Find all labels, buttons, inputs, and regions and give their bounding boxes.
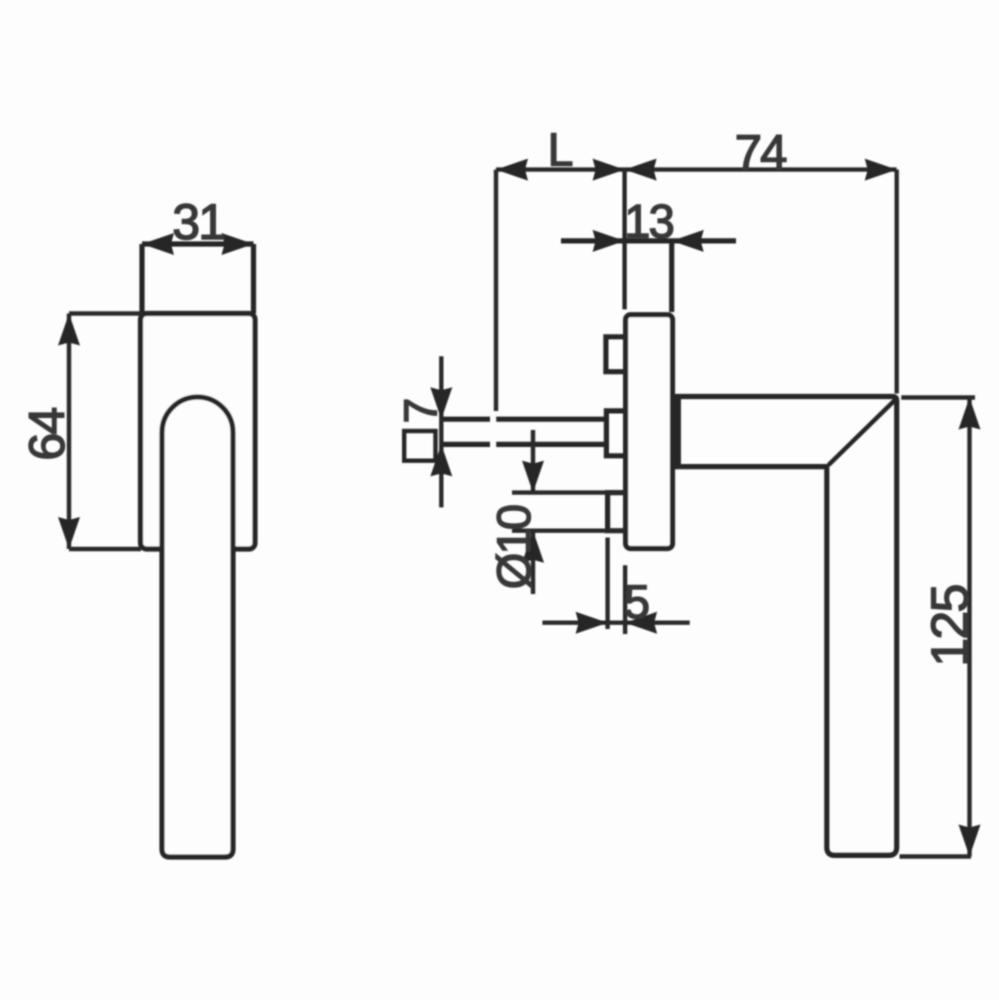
bottom screw boss side view: [608, 493, 626, 531]
svg-text:64: 64: [19, 408, 75, 461]
arrow 125 bottom: [959, 825, 981, 857]
arrow L right (pointing right, tip at 624.6): [593, 159, 625, 181]
arrow 74 left (pointing left, tip at 624.6): [625, 159, 657, 181]
extension line at x=896.7 (74 right): [895, 170, 899, 394]
spindle (square shaft), drawn with break gap: [441, 419, 606, 444]
dimension line 64: [67, 314, 71, 550]
svg-text:L: L: [548, 124, 573, 176]
arrow 31 left: [142, 233, 174, 255]
svg-text:125: 125: [922, 585, 980, 666]
extension lines for 125: [900, 398, 976, 857]
svg-text:74: 74: [735, 126, 786, 180]
dimension line 31 (doubles as tab top edge): [142, 241, 254, 246]
extension line at x=624.6 (tab front face, L/74 boundary): [622, 168, 626, 310]
arrow 74 right: [865, 159, 897, 181]
arrow 5 left (outside, pointing right, tip 607.6): [576, 612, 608, 634]
handle grip front view (covers rosette bottom edge): [162, 397, 233, 857]
top tab front view: [142, 244, 254, 314]
dimension line diameter 10: [531, 430, 535, 594]
extension lines for 5: [608, 538, 626, 635]
arrow d10 bottom (pointing up, tip 530.7): [522, 531, 544, 563]
dimension line L and 74: [496, 167, 897, 171]
svg-text:7: 7: [395, 399, 447, 423]
arrow 64 bottom: [58, 517, 80, 549]
svg-text:Ø10: Ø10: [487, 505, 540, 589]
spindle square cross-section symbol: [404, 431, 435, 461]
rosette plate side view: [626, 315, 673, 549]
spindle hub side view: [606, 411, 625, 456]
arrow d10 top (pointing down, tip 492.6): [522, 461, 544, 493]
arrow 7 bottom (outside, pointing up, tip at spindle bottom): [430, 444, 452, 476]
dimension line 125: [967, 398, 971, 857]
arrow L left: [496, 159, 528, 181]
bend miter line: [829, 400, 896, 466]
arrow 5 right (outside, pointing left, tip 625.1): [625, 612, 657, 634]
arrow 31 right: [222, 233, 254, 255]
svg-text:13: 13: [624, 195, 673, 248]
extension line at x=496 (L left): [494, 170, 498, 411]
dimension line 13: [561, 238, 736, 243]
extension lines for 64 dimension: [69, 314, 143, 550]
arrow 13 left (outside, pointing right, tip 624.6): [593, 230, 625, 252]
extension lines for diameter 10: [512, 493, 624, 531]
svg-text:5: 5: [624, 575, 649, 628]
arrow 125 top: [959, 398, 981, 430]
tab back face side view: [669, 241, 674, 312]
arrow 13 right (outside, pointing left, tip 671.7): [672, 230, 704, 252]
arrow 64 top: [58, 314, 80, 346]
dimension line 5: [542, 621, 689, 625]
rosette plate front view: [141, 314, 256, 550]
top screw boss side view: [606, 337, 626, 372]
handle neck and grip side view outline: [673, 397, 897, 856]
neck butt end at rosette: [673, 397, 681, 467]
arrow 7 top (outside, pointing down, tip at spindle top): [430, 387, 452, 419]
dimension line 7: [439, 356, 443, 507]
svg-text:31: 31: [172, 194, 224, 250]
